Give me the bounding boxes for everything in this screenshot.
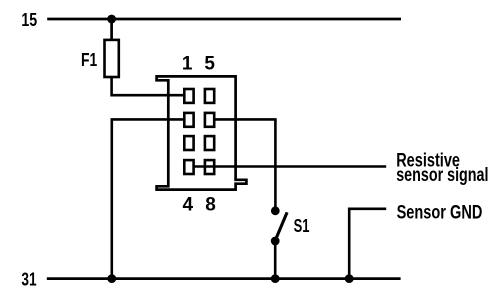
pin 7 — [205, 136, 214, 150]
junction 31 rail / S1 branch — [271, 274, 280, 283]
fuse F1 — [105, 40, 119, 77]
wire sensor GND stub — [349, 209, 386, 279]
switch S1 blade — [276, 212, 287, 238]
svg-text:15: 15 — [21, 10, 37, 30]
junction 31 rail / sensor GND branch — [345, 274, 354, 283]
junction 15 rail / F1 — [107, 15, 116, 24]
wire 31 rail — [47, 277, 401, 280]
svg-text:4: 4 — [183, 194, 194, 215]
svg-text:Sensor GND: Sensor GND — [397, 202, 483, 223]
svg-text:S1: S1 — [294, 216, 310, 236]
wire 31 rail to pin 2 — [112, 119, 185, 278]
wire S1 to 31 rail — [274, 241, 277, 279]
svg-text:sensor signal: sensor signal — [396, 165, 488, 186]
svg-text:5: 5 — [204, 54, 215, 75]
pin 1 — [184, 89, 193, 103]
svg-text:31: 31 — [21, 269, 36, 289]
switch S1 lower contact — [271, 237, 280, 246]
pin 6 — [205, 113, 214, 127]
wire 15 rail — [47, 18, 401, 21]
pin 5 — [205, 89, 214, 103]
pin 3 — [184, 136, 193, 150]
connector X1 housing — [157, 76, 247, 189]
switch S1 upper contact — [271, 206, 280, 215]
wire pin 6 to S1 — [215, 119, 275, 207]
pin 4 — [184, 160, 193, 174]
wire F1 to pin 1 — [112, 77, 185, 95]
pin 8 — [205, 160, 214, 174]
svg-text:8: 8 — [205, 194, 216, 215]
svg-text:1: 1 — [182, 54, 193, 75]
svg-text:F1: F1 — [81, 50, 97, 70]
junction 31 rail / pin 2 branch — [107, 274, 116, 283]
wire pin 4 and pin 8 resistive sensor signal — [194, 165, 387, 168]
wire 15 rail to F1 — [110, 19, 113, 40]
pin 2 — [184, 113, 193, 127]
